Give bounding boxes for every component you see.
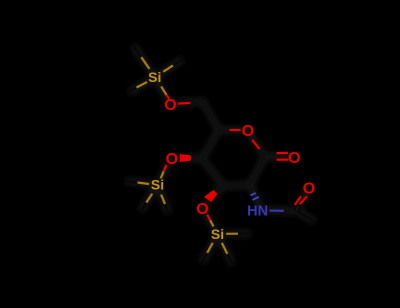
wire Camide=O3 line B dark stub	[299, 204, 301, 212]
wire lactone C1=O2 upper red half	[277, 152, 289, 154]
wedge C3-O4 red half	[204, 190, 217, 202]
wire lactone C1=O2 upper dark half	[266, 152, 277, 154]
wire Si2 methyl c gold half	[222, 243, 227, 254]
wire N-Camide dark half	[284, 210, 297, 212]
wire Si2 methyl a gold half	[226, 233, 238, 235]
svg-text:O: O	[242, 123, 254, 140]
wire Si1-O1 gold half	[161, 86, 166, 94]
wire O4-Si2 gold half	[210, 220, 213, 226]
wire Si2 methyl b dark half	[202, 253, 207, 263]
wire Si2 methyl c dark half	[227, 254, 233, 265]
wire C4-C5	[202, 130, 219, 159]
wire Si1 methyl c gold half	[137, 82, 148, 88]
wire Si1 methyl b dark half	[173, 59, 183, 65]
wire lactone C1=O2 lower dark half	[266, 159, 277, 161]
wire O4-Si2 red half	[207, 215, 210, 221]
wire C5-Oring dark half	[219, 129, 230, 131]
wire O5-Si3 red half	[164, 165, 167, 171]
wire O1-C6 dark half	[190, 102, 202, 103]
wire Si1 methyl a dark half	[133, 45, 141, 57]
wire Si3 methyl a dark half	[126, 181, 138, 183]
wire C2-C3	[224, 185, 251, 186]
wire Si3 methyl c gold half	[161, 195, 165, 205]
hashed wedge C2-N dash 3 (blue)	[252, 197, 258, 200]
hashed wedge C2-N dash 2 (blue)	[251, 193, 256, 195]
wire Si1 methyl a gold half	[141, 57, 149, 69]
svg-text:O: O	[164, 97, 176, 114]
wire C6-C5 (carbon bond, faint)	[203, 102, 220, 131]
wire O1-C6 red half	[178, 102, 190, 105]
wire Oring-C1 red half	[252, 140, 259, 149]
svg-text:O: O	[196, 201, 208, 218]
svg-text:O: O	[288, 150, 300, 167]
compression-artifact halo under structure	[126, 45, 315, 265]
hashed wedge C2-N dash 1 (dark)	[249, 189, 253, 190]
wedge C4-O5 red half	[180, 154, 191, 162]
svg-text:O: O	[303, 181, 315, 198]
wire Si1 methyl c dark half	[126, 88, 137, 94]
wire Si2 methyl a dark half	[238, 232, 251, 234]
svg-text:O: O	[166, 151, 178, 168]
wire Camide=O3 line A red half	[295, 196, 301, 205]
svg-text:HN: HN	[247, 204, 268, 220]
wire Si3 methyl b gold half	[146, 194, 152, 203]
wire Si3 methyl c dark half	[165, 204, 169, 213]
wire Camide=O3 line A dark stub	[293, 205, 296, 210]
wedge C3-O4 dark half	[213, 185, 224, 194]
wire Oring-C1 dark half	[260, 149, 266, 157]
wire lactone C1=O2 lower red half	[277, 159, 289, 161]
wire C1-C2	[250, 157, 265, 186]
wire Si3 methyl b dark half	[141, 203, 147, 212]
wire O5-Si3 gold half	[161, 171, 164, 178]
wire N-Camide blue half	[270, 210, 284, 212]
wire Si3 methyl a gold half	[138, 183, 150, 185]
svg-text:Si: Si	[151, 177, 164, 193]
wire Camide-CH3	[297, 211, 315, 222]
wedge C4-O5 dark half	[191, 156, 202, 161]
wire C3-C4	[202, 159, 224, 187]
wire Si1 methyl b gold half	[163, 65, 173, 71]
wire C5-Oring red half	[230, 129, 241, 131]
svg-text:Si: Si	[211, 226, 224, 242]
wire Si1-O1 red half	[166, 95, 169, 99]
svg-text:Si: Si	[148, 69, 161, 85]
wire Camide=O3 line B red half	[300, 196, 307, 204]
wire Si2 methyl b gold half	[207, 243, 213, 253]
